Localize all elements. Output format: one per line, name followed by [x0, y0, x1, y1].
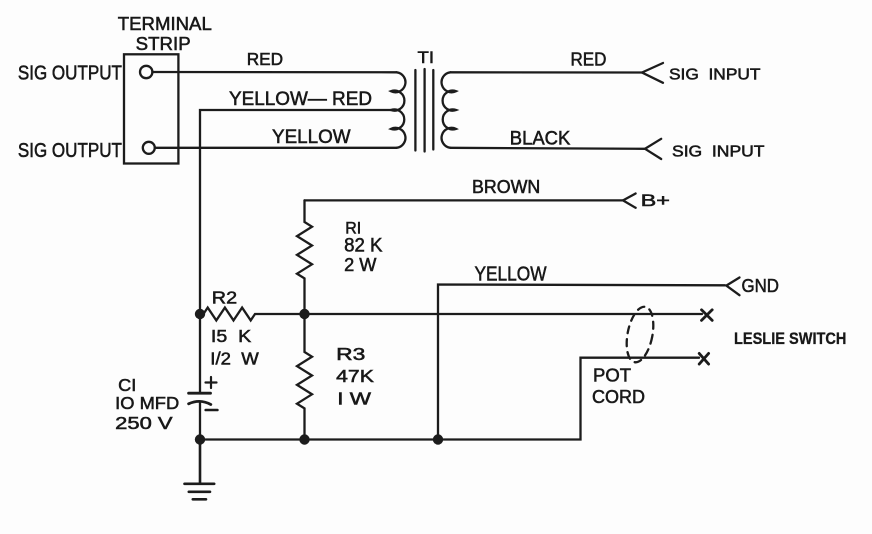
svg-text:IO MFD: IO MFD [115, 393, 179, 413]
svg-text:RED: RED [247, 49, 283, 69]
svg-text:2 W: 2 W [344, 255, 376, 275]
svg-text:TERMINAL: TERMINAL [118, 13, 212, 34]
connector SIG INPUT 2 arrow [645, 139, 661, 159]
leslie switch contact x bottom [699, 353, 708, 364]
leslie switch contact x top [702, 310, 713, 321]
svg-text:B+: B+ [641, 191, 670, 210]
connector B+ arrow [623, 194, 636, 208]
svg-text:POT: POT [593, 365, 631, 385]
svg-text:R2: R2 [212, 287, 237, 307]
capacitor C1 plus sign [206, 377, 217, 388]
svg-text:I/2 W: I/2 W [210, 348, 259, 368]
svg-text:BLACK: BLACK [510, 128, 571, 149]
svg-text:BROWN: BROWN [472, 176, 540, 197]
svg-text:YELLOW— RED: YELLOW— RED [229, 88, 372, 110]
svg-text:I5 K: I5 K [211, 326, 252, 346]
wire YELLOW to GND [438, 285, 725, 440]
capacitor C1 bottom plate [189, 401, 211, 404]
wire cap lower stem [199, 402, 201, 440]
svg-text:SIG OUTPUT: SIG OUTPUT [18, 61, 122, 84]
svg-text:R3: R3 [336, 344, 365, 364]
svg-text:CI: CI [118, 375, 136, 395]
svg-text:SIG INPUT: SIG INPUT [669, 66, 761, 83]
node junction dot E (yellow rail) [433, 434, 443, 444]
node junction dot B (R1/R2/R3) [299, 309, 309, 319]
connector GND arrow [726, 278, 739, 296]
connector SIG INPUT 1 arrow [642, 63, 663, 83]
wire YELLOW primary [155, 147, 397, 149]
wire BLACK secondary [451, 148, 646, 149]
transformer T1 core [414, 70, 416, 151]
svg-text:I W: I W [337, 389, 371, 409]
svg-text:47K: 47K [336, 366, 374, 386]
wire RED secondary [451, 71, 643, 73]
wire BROWN [305, 199, 624, 201]
wire YELLOW-RED center tap [200, 110, 391, 314]
svg-text:YELLOW: YELLOW [475, 263, 548, 286]
ground [185, 440, 215, 500]
svg-text:SIG INPUT: SIG INPUT [672, 143, 765, 160]
capacitor C1 minus sign [206, 409, 218, 412]
svg-text:YELLOW: YELLOW [272, 126, 351, 148]
svg-text:250 V: 250 V [115, 413, 173, 433]
transformer T1 primary winding [391, 72, 405, 148]
node junction dot D (R3 bottom) [299, 434, 309, 444]
wire bottom rail [200, 358, 699, 440]
terminal strip box [124, 54, 178, 163]
svg-text:TI: TI [418, 48, 435, 67]
svg-text:RED: RED [571, 50, 607, 70]
svg-text:LESLIE SWITCH: LESLIE SWITCH [734, 329, 846, 348]
pot cord dashed ellipse [622, 304, 657, 364]
wire RED primary [152, 71, 396, 74]
node junction dot A (R2 left) [195, 309, 205, 319]
resistor R1 [297, 200, 312, 314]
svg-text:GND: GND [742, 275, 780, 296]
svg-text:STRIP: STRIP [136, 33, 191, 54]
transformer T1 secondary winding [442, 72, 456, 148]
terminal 2 [143, 142, 155, 154]
capacitor C1 top plate [189, 392, 211, 395]
svg-text:SIG OUTPUT: SIG OUTPUT [18, 139, 122, 162]
resistor R2 [200, 308, 702, 321]
terminal 1 [140, 66, 152, 78]
svg-text:CORD: CORD [592, 387, 645, 407]
svg-text:82 K: 82 K [344, 236, 383, 257]
resistor R3 [297, 314, 312, 440]
wire cap upper stem [199, 314, 201, 393]
node junction dot C (C1/ground) [195, 434, 205, 444]
